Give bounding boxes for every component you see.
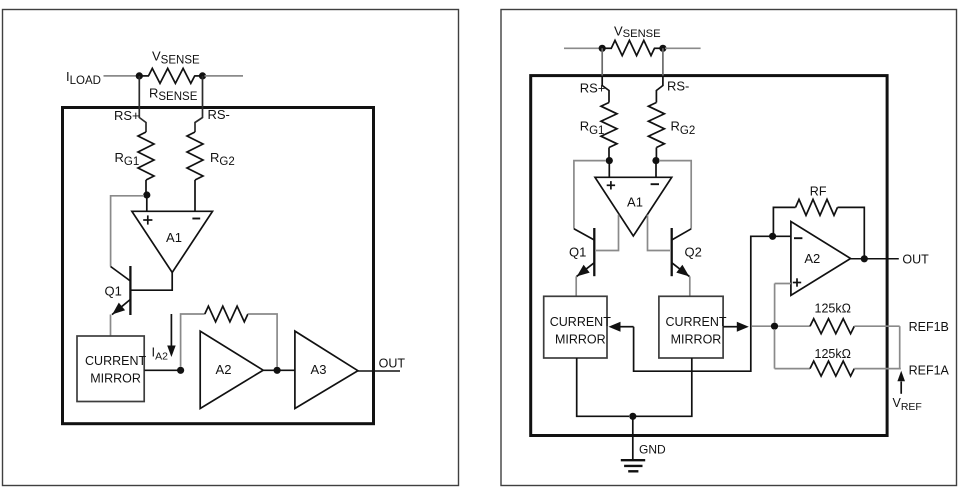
plus sign A1 (right) (607, 181, 615, 189)
wire node to A2 - input (773, 235, 791, 237)
label RS+ (114, 108, 140, 123)
op-amp A1 (132, 211, 213, 272)
wire feedback from node to Q1 collector (111, 196, 144, 267)
svg-text:MIRROR: MIRROR (555, 333, 606, 347)
transistor Q1 collector (right) (574, 229, 594, 240)
transistor Q2 emitter arrow (676, 265, 689, 277)
svg-text:RS+: RS+ (580, 81, 606, 96)
svg-text:Q1: Q1 (569, 245, 586, 260)
transistor Q1 emitter (right) (577, 263, 595, 277)
transistor Q1 emitter arrow (right) (577, 265, 590, 277)
resistor VSENSE (602, 40, 663, 55)
wire RF right leg (838, 207, 865, 255)
IC boundary box (right figure) (531, 76, 887, 436)
buffer A3 (295, 331, 358, 408)
current mirror box (left figure) (77, 336, 147, 402)
resistor A2 feedback (205, 306, 248, 322)
wire 125k upper to REF1B (854, 325, 899, 327)
svg-text:A1: A1 (627, 195, 643, 210)
label OUT (right figure) (902, 252, 929, 266)
svg-text:CURRENT: CURRENT (550, 315, 611, 329)
wire Q1 emitter to current mirror (110, 315, 112, 337)
wire sense left stub (564, 47, 600, 49)
wire right mirror to A2+ node (752, 325, 771, 327)
panel border (right figure) (501, 10, 957, 486)
svg-text:A1: A1 (166, 230, 182, 245)
resistor 125k upper (810, 319, 854, 334)
svg-text:Q2: Q2 (685, 245, 702, 260)
label RG1 (right figure) (580, 119, 605, 137)
wire A3 to OUT (358, 370, 400, 372)
minus sign A2 (794, 237, 802, 239)
svg-text:REF1B: REF1B (909, 320, 949, 334)
label RSENSE (149, 86, 198, 104)
svg-text:A2: A2 (804, 251, 820, 266)
transistor Q1 collector (111, 267, 131, 282)
svg-text:Q1: Q1 (105, 284, 122, 299)
svg-text:RF: RF (810, 184, 827, 198)
wire RG2 to node (right) (655, 148, 657, 158)
minus sign A1 (right) (651, 183, 659, 185)
label 125k upper (815, 302, 851, 316)
node sense left (599, 45, 606, 52)
op-amp A1 (right figure) (595, 177, 672, 236)
wire sense right stub (665, 47, 701, 49)
current mirror box right (right figure) (659, 296, 727, 358)
wire A2 + input (775, 283, 791, 285)
transistor Q1 emitter arrow (112, 303, 125, 315)
label A1 (right figure) (627, 195, 643, 210)
ground symbol (621, 460, 645, 471)
wire RG2 to A1 - input (194, 180, 196, 211)
wire with arrow out of right mirror (723, 322, 749, 332)
label RS- (right figure) (667, 79, 689, 94)
label REF1B (909, 320, 949, 334)
wire RG1 to node (145, 180, 147, 193)
label GND (639, 443, 666, 457)
wire Q1 emitter to mirror (right) (575, 276, 577, 296)
label RF (810, 184, 827, 198)
label VSENSE (right figure) (614, 24, 661, 40)
node A2 output (right) (861, 255, 868, 262)
node RS- junction (199, 72, 206, 79)
wire REF1B to REF1A tie (899, 326, 901, 368)
svg-text:MIRROR: MIRROR (90, 371, 141, 385)
wire RF left leg (773, 207, 795, 236)
resistor RG1 (right figure) (601, 103, 617, 148)
node A1 noninverting input (143, 191, 150, 198)
arrow VREF (897, 371, 905, 394)
label A3 (311, 362, 327, 377)
svg-text:125kΩ: 125kΩ (815, 347, 851, 361)
wire + node to Q1 collector (574, 161, 606, 229)
wire + node to A1 (608, 161, 610, 178)
node REF divider (771, 323, 778, 330)
wire A2 output to OUT (851, 258, 899, 260)
panel border (left figure) (3, 10, 459, 486)
label RG2 (right figure) (671, 119, 696, 137)
svg-text:MIRROR: MIRROR (671, 333, 722, 347)
label Q2 (685, 245, 702, 260)
wire node to A1 + input (146, 195, 148, 211)
label OUT (left figure) (379, 356, 406, 370)
node sense right (659, 45, 666, 52)
wire ground stem (632, 416, 634, 459)
svg-text:OUT: OUT (379, 356, 406, 370)
label Q1 (right figure) (569, 245, 586, 260)
resistor 125k lower (810, 361, 854, 376)
op-amp A2 (right figure) (791, 222, 851, 296)
svg-text:RS+: RS+ (114, 108, 140, 123)
current mirror box left (right figure) (544, 296, 612, 358)
transistor Q1 base bar (right) (593, 228, 595, 276)
wire ref node to 125k lower (775, 368, 811, 370)
resistor RG2 (right figure) (648, 103, 664, 148)
svg-text:REF1A: REF1A (909, 363, 950, 377)
wire A2 to A3 (263, 369, 295, 371)
minus sign A1 (192, 218, 200, 220)
svg-text:CURRENT: CURRENT (85, 354, 146, 368)
transistor Q2 base bar (671, 228, 673, 276)
label ILOAD (66, 69, 101, 87)
current arrow IA2 (167, 314, 176, 357)
wire ILOAD to RS+ node (104, 75, 138, 77)
wire RS- into IC (right) (656, 48, 663, 102)
wire - node to Q2 collector (659, 161, 691, 229)
label Q1 (105, 284, 122, 299)
op-amp A2 (left figure) (200, 331, 263, 408)
label RG1 (115, 150, 140, 168)
label RS+ (right figure) (580, 81, 606, 96)
wire ref node to 125k upper (778, 325, 810, 327)
label RG2 (210, 150, 235, 168)
label VSENSE (152, 49, 200, 67)
wire RS- stub right (205, 75, 244, 77)
svg-text:CURRENT: CURRENT (665, 315, 726, 329)
label A1 (166, 230, 182, 245)
svg-text:GND: GND (639, 443, 666, 457)
IC boundary box (left figure) (63, 108, 374, 424)
transistor Q1 emitter (112, 299, 130, 314)
wire RG1 to node (right) (608, 148, 610, 158)
label RS- (208, 107, 230, 122)
wire ref node down (774, 329, 776, 369)
node ground junction (629, 413, 636, 420)
svg-text:RS-: RS- (667, 79, 689, 94)
plus sign A1 (143, 215, 152, 224)
wire left mirror to ground node (577, 358, 629, 416)
node RS+ junction (136, 72, 143, 79)
resistor RSENSE (139, 68, 202, 83)
resistor RG2 (187, 132, 203, 180)
svg-text:125kΩ: 125kΩ (815, 302, 851, 316)
svg-text:A2: A2 (216, 362, 232, 377)
wire with arrow into left mirror (609, 322, 634, 332)
label A2 (right figure) (804, 251, 820, 266)
node A1 + input (right) (606, 157, 613, 164)
label REF1A (909, 363, 950, 377)
plus sign A2 (793, 278, 801, 286)
node A2 input (177, 367, 184, 374)
label 125k lower (815, 347, 851, 361)
wire - node to A1 (655, 161, 657, 178)
node A2 output (274, 367, 281, 374)
wire A1 output to Q1 base (131, 273, 172, 291)
transistor Q2 collector (672, 229, 692, 240)
node A2 inverting input (769, 233, 776, 240)
wire RS+ into IC (139, 76, 146, 132)
transistor Q2 emitter (672, 263, 690, 277)
wire RS- into IC (195, 76, 203, 132)
svg-text:A3: A3 (311, 362, 327, 377)
wire 125k lower to REF1A (854, 368, 901, 370)
wire Q2 emitter to mirror (689, 276, 691, 296)
resistor RF (796, 199, 838, 215)
wire right mirror to ground node (636, 358, 692, 416)
transistor Q1 base bar (129, 266, 131, 315)
wire A1 left edge to Q1 base (596, 215, 619, 251)
label A2 (216, 362, 232, 377)
wire RS+ into IC (right) (602, 48, 609, 102)
svg-text:OUT: OUT (902, 252, 929, 266)
wire feedback loop right (248, 314, 277, 367)
node A1 - input (right) (652, 157, 659, 164)
label VREF (893, 396, 922, 413)
wire A1 right edge to Q2 base (648, 215, 671, 251)
resistor RG1 (138, 132, 154, 180)
wire mirror link down-left (634, 236, 770, 371)
wire current mirror to A2 node (144, 369, 177, 371)
label IA2 (152, 345, 169, 363)
svg-text:RS-: RS- (208, 107, 230, 122)
wire feedback loop left (181, 314, 205, 367)
wire + input down to ref node (774, 284, 776, 323)
